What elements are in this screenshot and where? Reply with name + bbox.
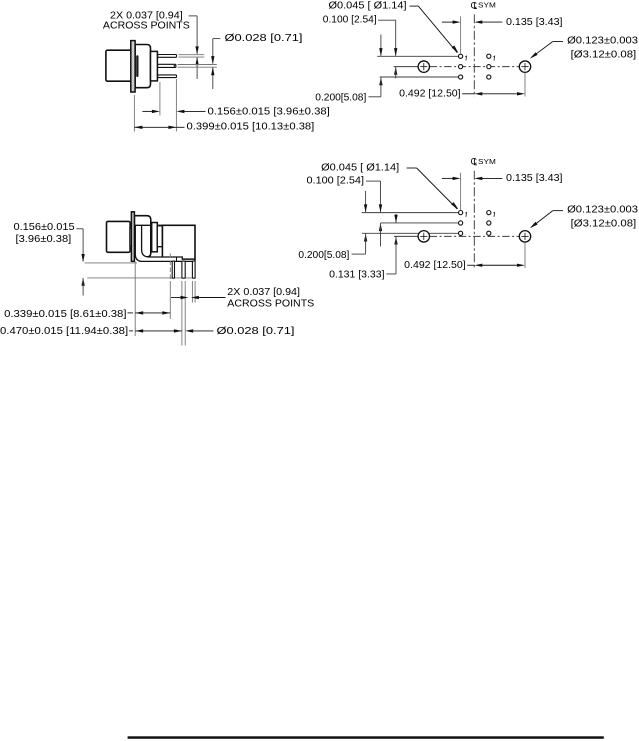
- adjustment knob (view 1): [106, 50, 132, 81]
- dimension dia 0.028 (view 2): [185, 329, 193, 332]
- dimension 0.200 row span (footprint 1): [380, 35, 382, 56]
- pin 1 downward (view 2): [172, 261, 174, 278]
- pin 1 tiny labels (footprint 2): [465, 212, 466, 217]
- extension lines below view 2: [134, 262, 136, 336]
- mounting hole right with cross (footprint 2): [519, 231, 530, 242]
- leader bend for 2X 0.037 label (view 1): [189, 15, 198, 17]
- body lobe (view 2): [134, 216, 150, 257]
- dimension 0.492 centerline to mounting hole (footprint 1): [524, 73, 526, 97]
- svg-text:Ø0.123±0.003: Ø0.123±0.003: [567, 36, 638, 47]
- pin row extension lines (footprint 2): [362, 212, 459, 214]
- svg-text:0.399±0.015 [10.13±0.38]: 0.399±0.015 [10.13±0.38]: [187, 121, 315, 132]
- mounting flange hatched (view 2): [131, 212, 134, 261]
- svg-text:0.156±0.015 [3.96±0.38]: 0.156±0.015 [3.96±0.38]: [208, 107, 330, 118]
- pin 2 downward (view 2): [182, 261, 185, 278]
- vertical centerline (footprint 1): [473, 14, 475, 97]
- svg-text:0.492 [12.50]: 0.492 [12.50]: [404, 260, 466, 271]
- pin 3 downward (view 2): [192, 261, 195, 278]
- pin holes left column (footprint 1): [459, 54, 463, 58]
- svg-text:0.131 [3.33]: 0.131 [3.33]: [329, 269, 385, 280]
- pin holes left column (footprint 2): [459, 211, 463, 215]
- svg-text:[Ø3.12±0.08]: [Ø3.12±0.08]: [571, 219, 637, 230]
- svg-text:Ø0.045 [ Ø1.14]: Ø0.045 [ Ø1.14]: [329, 1, 407, 12]
- svg-text:0.100 [2.54]: 0.100 [2.54]: [323, 15, 377, 26]
- pin 2 wiper (view 1): [158, 64, 176, 67]
- horizontal center dash-dot line (footprint 2): [430, 235, 520, 237]
- mounting flange hatched (view 1): [131, 41, 135, 92]
- leader bend for dia 0.028 (view 1): [213, 38, 221, 40]
- horizontal center dash-dot line (footprint 1): [430, 66, 520, 68]
- svg-text:Ø0.028 [0.71]: Ø0.028 [0.71]: [217, 326, 295, 337]
- svg-text:0.156±0.015: 0.156±0.015: [14, 222, 75, 233]
- svg-text:ACROSS POINTS: ACROSS POINTS: [227, 299, 314, 310]
- adjustment knob (view 2): [107, 221, 131, 252]
- dimension arrows 0.037 pin width (view 1): [195, 46, 198, 54]
- pin edge extension lines (view 1): [179, 54, 205, 56]
- dimension 0.200 row span (footprint 2): [365, 191, 367, 212]
- vertical centerline (footprint 2): [473, 171, 475, 267]
- svg-text:0.470±0.015 [11.94±0.38]: 0.470±0.015 [11.94±0.38]: [0, 326, 128, 337]
- bracket top edge (view 2): [142, 224, 163, 226]
- pin 1 (view 1): [158, 55, 177, 58]
- view 1: trimmer side view with straight pins: [103, 10, 330, 132]
- svg-text:[3.96±0.38]: [3.96±0.38]: [16, 234, 72, 245]
- pin 1 tiny labels (footprint 1): [465, 56, 466, 61]
- body (view 1): [135, 45, 150, 88]
- svg-text:Ø0.123±0.003: Ø0.123±0.003: [567, 205, 638, 216]
- svg-text:0.135 [3.43]: 0.135 [3.43]: [506, 173, 563, 184]
- mounting surface extension line (view 2): [85, 262, 138, 264]
- support plate (view 2): [162, 225, 195, 259]
- leader bend 0.156 (view 2): [77, 228, 84, 230]
- svg-text:0.492 [12.50]: 0.492 [12.50]: [399, 89, 461, 100]
- pin holes right column (footprint 1): [487, 54, 491, 58]
- dimension 0.135 column to centerline (footprint 1): [460, 16, 462, 53]
- connector piece (view 2): [157, 226, 162, 247]
- dimension 0.135 column to centerline (footprint 2): [460, 173, 462, 210]
- dimension 0.399 overall (view 1): [134, 126, 176, 128]
- dimension 0.492 centerline to mounting hole (footprint 2): [524, 242, 526, 268]
- svg-text:SYM: SYM: [478, 3, 496, 10]
- svg-text:[Ø3.12±0.08]: [Ø3.12±0.08]: [571, 50, 637, 61]
- svg-text:0.135 [3.43]: 0.135 [3.43]: [506, 17, 563, 28]
- washer step (view 2): [130, 228, 132, 246]
- svg-text:0.200[5.08]: 0.200[5.08]: [315, 93, 366, 104]
- bottom rule: [128, 736, 604, 739]
- svg-text:0.100 [2.54]: 0.100 [2.54]: [307, 176, 365, 187]
- mounting hole left with cross (footprint 1): [418, 61, 429, 72]
- svg-text:SYM: SYM: [478, 159, 496, 166]
- pin tip extension line (view 2): [87, 277, 196, 279]
- mounting hole right with cross (footprint 1): [519, 61, 530, 72]
- pin row extension lines (footprint 1): [377, 55, 458, 57]
- view 2: trimmer side view with right-angle pins: [0, 212, 314, 346]
- extension lines below view 1: [133, 95, 135, 132]
- svg-text:Ø0.028 [0.71]: Ø0.028 [0.71]: [225, 33, 303, 44]
- svg-text:0.200[5.08]: 0.200[5.08]: [298, 250, 349, 261]
- svg-text:2X 0.037 [0.94]: 2X 0.037 [0.94]: [227, 287, 300, 298]
- rear step block (view 2): [152, 223, 158, 252]
- pin 3 (view 1): [158, 75, 177, 78]
- inner edge bar (view 1): [136, 55, 138, 77]
- dimension 0.131 wiper row to mounting hole row (footprint 2): [395, 214, 397, 223]
- dimension 0.156 pin length (view 1): [142, 110, 152, 112]
- pin holes right column (footprint 2): [487, 211, 491, 215]
- svg-text:ACROSS POINTS: ACROSS POINTS: [103, 21, 190, 32]
- footprint 2 : PC board layout for right-angle pins: [298, 157, 638, 281]
- svg-text:0.339±0.015 [8.61±0.38]: 0.339±0.015 [8.61±0.38]: [4, 309, 127, 320]
- svg-text:Ø0.045 [ Ø1.14]: Ø0.045 [ Ø1.14]: [321, 163, 399, 174]
- dimension arrows 0.156 (view 2): [81, 254, 84, 262]
- rear step (view 1): [151, 51, 158, 81]
- L-bracket arm and base strip (view 2): [135, 225, 195, 261]
- footprint 1 : PC board layout for straight pins (top right): [315, 0, 638, 103]
- dimension 2X 0.037 across points (view 2): [171, 297, 180, 299]
- mounting hole left with cross (footprint 2): [418, 231, 429, 242]
- dimension arrows dia 0.028 (view 1): [211, 56, 214, 64]
